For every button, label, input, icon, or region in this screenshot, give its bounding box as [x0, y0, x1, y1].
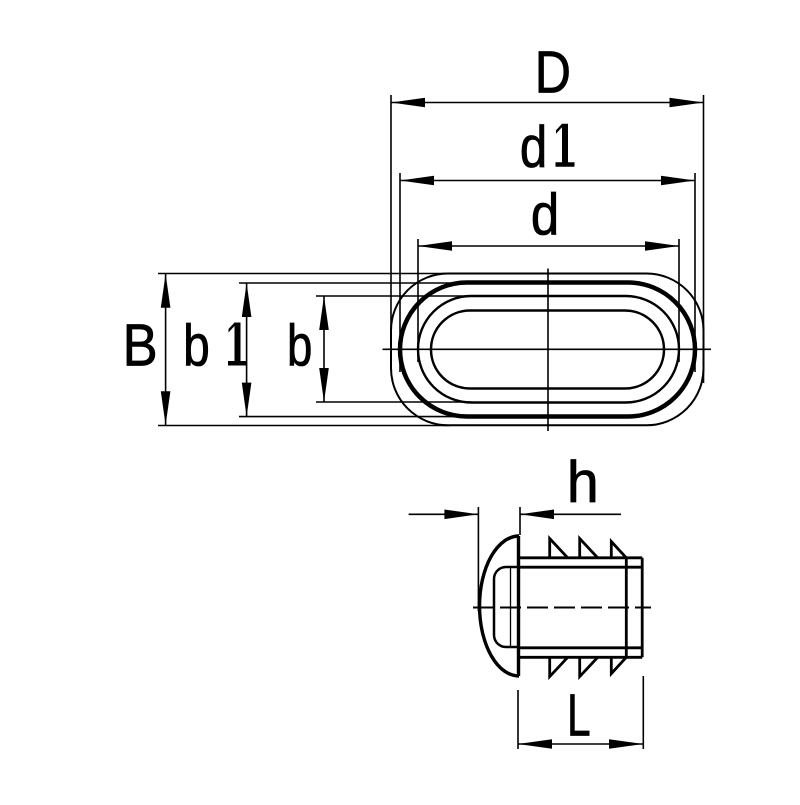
dimension L — [518, 676, 643, 749]
inner hole stadium — [431, 311, 664, 389]
dimension h — [409, 507, 621, 611]
top fins — [550, 539, 627, 558]
thick stadium d1 x b1 — [400, 283, 695, 417]
dimension B — [158, 274, 450, 426]
mid stadium d x b — [418, 296, 679, 403]
body outline — [519, 558, 643, 658]
svg-text:B: B — [123, 312, 158, 379]
svg-text:b: b — [287, 314, 312, 379]
plan vertical centerline — [547, 269, 549, 432]
inner cavity — [494, 567, 519, 647]
dimension b — [316, 296, 471, 402]
svg-text:h: h — [567, 450, 599, 515]
cavity edge line — [510, 567, 512, 647]
svg-text:d: d — [531, 181, 559, 247]
bottom fins — [550, 657, 627, 676]
dome face — [517, 536, 520, 676]
svg-text:b: b — [183, 314, 210, 379]
dome head arc — [480, 536, 519, 676]
dimension d1 — [400, 173, 695, 372]
svg-text:D: D — [535, 39, 571, 106]
plan horizontal centerline — [383, 348, 712, 350]
dimension d — [418, 239, 679, 362]
svg-text:d: d — [520, 115, 547, 180]
dimension b1 — [239, 283, 467, 417]
dimension D — [391, 95, 704, 383]
outer flange outline D x B — [391, 274, 704, 426]
svg-text:L: L — [567, 682, 591, 749]
side centerline — [473, 607, 651, 609]
